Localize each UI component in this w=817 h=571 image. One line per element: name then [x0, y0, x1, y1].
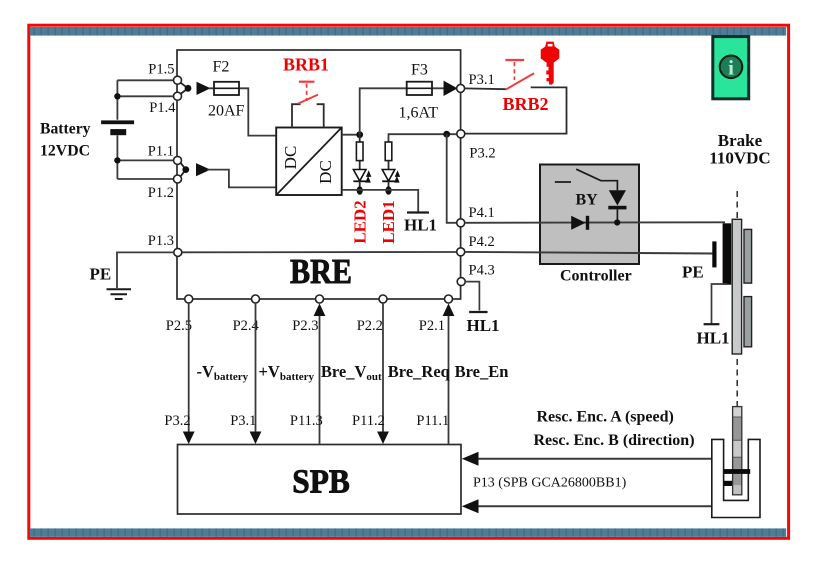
svg-text:P2.1: P2.1: [419, 318, 445, 334]
svg-text:HL1: HL1: [697, 329, 730, 348]
arrow to DC/DC: [196, 163, 211, 176]
wire DC/DC top output: [342, 134, 360, 136]
svg-text:P1.1: P1.1: [148, 143, 174, 159]
svg-text:PE: PE: [682, 263, 704, 282]
svg-text:P11.3: P11.3: [290, 413, 323, 429]
wire to DC/DC lower input: [207, 170, 276, 188]
pin P1.3: [174, 248, 182, 256]
pin P3.1: [457, 84, 465, 92]
info button: [713, 37, 749, 99]
svg-text:Battery: Battery: [40, 121, 91, 138]
ground PE left: [107, 289, 132, 299]
svg-text:P4.2: P4.2: [469, 234, 495, 250]
battery B1: [101, 120, 134, 135]
pin P1.4: [174, 92, 182, 100]
svg-text:HL1: HL1: [467, 316, 500, 335]
svg-text:1,6AT: 1,6AT: [399, 105, 439, 122]
LED1 diode: [382, 161, 400, 190]
pin P2.2: [379, 295, 387, 303]
top banner band: [30, 27, 786, 36]
pin P1.5: [174, 76, 182, 84]
DC/DC converter U1: [276, 128, 342, 196]
svg-text:Controller: Controller: [560, 268, 632, 285]
svg-text:Resc. Enc. A (speed): Resc. Enc. A (speed): [537, 409, 674, 426]
BRB1 switch contacts wire: [292, 104, 324, 127]
controller internal switch: [555, 169, 618, 190]
diode series on P4.1: [571, 216, 589, 230]
pin P1.1: [174, 156, 182, 164]
pin P2.4: [252, 295, 260, 303]
wire P2.5 to SPB: [188, 303, 190, 433]
svg-text:HL1: HL1: [404, 216, 437, 235]
wire riser to F3 and P3.1: [360, 88, 445, 134]
BRB2 actuator mark: [505, 59, 524, 61]
svg-text:P1.5: P1.5: [148, 62, 174, 78]
svg-text:P3.2: P3.2: [164, 413, 190, 429]
svg-text:P11.1: P11.1: [416, 413, 449, 429]
svg-text:i: i: [728, 56, 734, 80]
svg-text:P3.1: P3.1: [469, 72, 495, 88]
svg-text:P1.3: P1.3: [148, 233, 174, 249]
svg-text:PE: PE: [90, 265, 112, 284]
BRB1 switch blade: [298, 95, 318, 104]
HL1 bottom terminal bar: [469, 311, 487, 313]
svg-text:12VDC: 12VDC: [40, 142, 90, 159]
controller box: [540, 165, 639, 265]
wire P1.3 to P4.2 through BRE: [182, 251, 457, 253]
wire LED1 top to P3.2: [389, 134, 457, 142]
wire bottom rail to HL1 lamp: [342, 190, 419, 212]
resistor R-LED2: [359, 135, 361, 181]
svg-text:BY: BY: [576, 192, 599, 209]
LED2 diode: [353, 170, 371, 191]
junction battery/P1.1: [114, 157, 120, 163]
wire P2.2 to SPB: [382, 303, 384, 433]
pin P2.3: [316, 295, 324, 303]
wire SPB to P2.1: [448, 315, 450, 445]
svg-text:P3.1: P3.1: [230, 413, 256, 429]
brake armature plate: [732, 219, 741, 354]
arrow into P3.1: [444, 81, 458, 96]
wire SPB to P2.3: [319, 315, 321, 445]
arrow to F2: [197, 82, 211, 95]
svg-text:P1.2: P1.2: [148, 185, 174, 201]
svg-text:SPB: SPB: [292, 464, 350, 501]
brake axis dashed line: [736, 191, 738, 406]
svg-text:DC: DC: [281, 146, 300, 170]
wire P4.3 to HL1: [465, 282, 479, 311]
svg-text:P11.2: P11.2: [352, 413, 385, 429]
svg-text:P13 (SPB GCA26800BB1): P13 (SPB GCA26800BB1): [473, 476, 627, 491]
wire P2.4 to SPB: [255, 303, 257, 433]
wire encoder A to SPB: [477, 458, 712, 460]
svg-text:BRB2: BRB2: [503, 94, 549, 114]
svg-text:20AF: 20AF: [208, 103, 245, 120]
resistor R-LED1: [385, 142, 392, 161]
connector P1.1/P1.2 to node: [181, 163, 186, 177]
svg-text:F2: F2: [213, 59, 230, 76]
svg-text:F3: F3: [411, 62, 428, 79]
wire P1.3 to PE: [117, 252, 174, 288]
key icon: [541, 42, 560, 85]
encoder cup: [712, 439, 760, 517]
junction LED2 bottom: [357, 186, 363, 195]
svg-text:110VDC: 110VDC: [709, 149, 770, 168]
brake coil black bar: [723, 223, 732, 284]
brake disc upper: [744, 229, 752, 283]
pin P4.1: [457, 219, 465, 227]
fuse F2: [214, 82, 239, 95]
svg-text:P3.2: P3.2: [469, 146, 495, 162]
HL1 lamp terminal bar: [407, 211, 429, 213]
pin P2.1: [445, 295, 453, 303]
diode BY vertical: [608, 190, 626, 222]
wire to P1.5: [117, 79, 174, 81]
BRB2 switch blade: [506, 73, 534, 89]
BRB2 return wire to P3.2: [465, 87, 567, 133]
svg-text:LED2: LED2: [350, 200, 369, 243]
HL1 right terminal bar: [704, 323, 720, 325]
wire through F2: [209, 88, 276, 135]
junction battery/P1.4: [114, 93, 120, 99]
wire brake to HL1: [712, 284, 728, 324]
wire junction down to P4.1: [447, 134, 457, 223]
pin P4.2: [457, 248, 465, 256]
svg-text:P2.2: P2.2: [357, 318, 383, 334]
svg-text:P1.4: P1.4: [149, 100, 176, 116]
wire encoder B to SPB: [477, 505, 712, 507]
BRB1 actuator mark: [299, 81, 315, 83]
junction P3.2/P4.1: [443, 131, 450, 138]
node dot P1.1/P1.2: [182, 166, 189, 173]
fuse F3: [407, 82, 432, 95]
pin P4.3: [457, 278, 465, 286]
BRE module box: [177, 50, 461, 299]
pin P3.2: [457, 130, 465, 138]
connector P1.5/P1.4 to node: [181, 83, 189, 94]
junction LED1 bottom: [385, 186, 391, 195]
encoder clamp block: [724, 481, 732, 486]
junction BY/P4.1: [614, 219, 620, 225]
PE terminal bar: [712, 241, 716, 267]
wire P4.1 to brake: [465, 221, 725, 224]
svg-text:P4.3: P4.3: [469, 263, 495, 279]
pin P1.2: [174, 175, 182, 183]
wire to P1.1: [117, 159, 174, 161]
wire to P1.4: [117, 95, 174, 97]
svg-text:Resc. Enc. B (direction): Resc. Enc. B (direction): [534, 432, 695, 449]
encoder shaft: [733, 407, 742, 495]
encoder coupling bar: [724, 469, 751, 474]
wire to P1.2: [117, 178, 174, 180]
wire P4.2 to PE terminal: [465, 252, 713, 254]
svg-text:Bre_En: Bre_En: [455, 362, 509, 381]
svg-text:P2.3: P2.3: [292, 318, 318, 334]
wire BRB2 left stub: [465, 87, 506, 90]
bottom banner band: [30, 528, 786, 536]
SPB module box: [178, 445, 462, 515]
junction DC out / F3 riser: [356, 131, 363, 138]
brake disc lower: [744, 297, 752, 347]
pin P2.5: [185, 295, 193, 303]
svg-text:BRE: BRE: [290, 252, 352, 291]
svg-text:BRB1: BRB1: [283, 55, 329, 75]
svg-text:Brake: Brake: [718, 131, 763, 150]
node dot P1.5/P1.4: [185, 85, 192, 92]
svg-text:LED1: LED1: [379, 200, 398, 243]
svg-text:Bre_Req: Bre_Req: [388, 362, 451, 381]
wire battery vertical: [116, 80, 118, 179]
svg-text:DC: DC: [316, 160, 335, 184]
svg-text:P4.1: P4.1: [469, 205, 495, 221]
